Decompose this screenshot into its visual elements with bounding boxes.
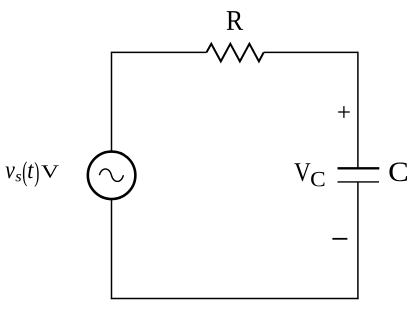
capacitor value label C bbox=[389, 163, 407, 182]
capacitor C bottom plate bbox=[338, 181, 380, 183]
AC voltage source circle bbox=[88, 152, 136, 200]
capacitor voltage label V_C bbox=[294, 163, 310, 181]
plus polarity sign bbox=[338, 106, 350, 118]
source label v_s(t)V bbox=[5, 161, 58, 187]
wire right vertical upper (top rail to capacitor) bbox=[357, 52, 359, 168]
wire top-right horizontal bbox=[264, 51, 358, 53]
wire right vertical lower (capacitor to bottom rail) bbox=[357, 182, 359, 299]
capacitor C top plate bbox=[338, 167, 380, 169]
wire top-left horizontal bbox=[112, 51, 207, 53]
wire left vertical upper (source to top rail) bbox=[111, 52, 113, 152]
wire left vertical lower (source to bottom rail) bbox=[111, 199, 113, 299]
AC source sine symbol bbox=[99, 169, 123, 181]
minus polarity sign bbox=[332, 238, 347, 240]
wire bottom horizontal bbox=[111, 298, 359, 300]
resistor R zigzag bbox=[207, 44, 264, 62]
resistor label R bbox=[227, 11, 243, 30]
